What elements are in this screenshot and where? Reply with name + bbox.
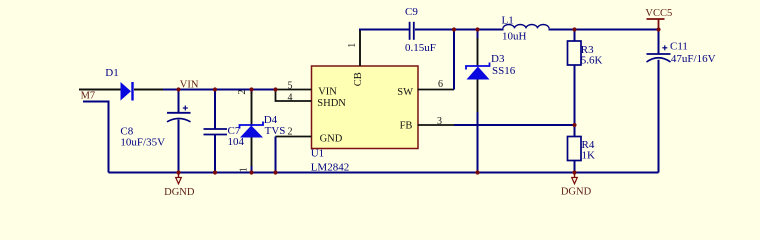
node junction at C7	[213, 87, 217, 91]
wire L1 to VCC5 node	[549, 29, 659, 31]
svg-text:GND: GND	[320, 133, 343, 144]
wire D1 cathode to VIN node / pin5	[134, 89, 163, 91]
svg-text:6: 6	[438, 79, 443, 90]
wire SW up to rail	[453, 29, 455, 90]
ground DGND right	[561, 173, 592, 198]
wire FB to divider node	[454, 124, 575, 126]
svg-text:FB: FB	[400, 120, 413, 131]
node junction VCC5	[656, 27, 660, 31]
node junction at pin5/4	[273, 87, 277, 91]
svg-text:2: 2	[288, 126, 293, 137]
svg-text:DGND: DGND	[164, 187, 195, 198]
svg-text:VCC5: VCC5	[645, 8, 672, 19]
pin 3 FB	[418, 124, 455, 126]
node junction D3 rail	[475, 27, 479, 31]
ground rail junctions	[176, 170, 180, 174]
wire C9 to SW node	[415, 29, 504, 31]
capacitor C7	[204, 90, 245, 173]
svg-text:5: 5	[288, 81, 293, 92]
svg-text:1K: 1K	[582, 150, 596, 162]
pin 1 CB	[359, 31, 361, 67]
wire D3 cathode to rail	[477, 30, 479, 41]
inductor L1	[502, 14, 550, 42]
schottky diode D3	[466, 53, 516, 80]
svg-text:47uF/16V: 47uF/16V	[671, 53, 716, 65]
svg-text:SHDN: SHDN	[317, 98, 346, 109]
ground rail wire	[109, 172, 659, 174]
svg-text:1: 1	[239, 167, 250, 172]
capacitor C11	[647, 30, 716, 173]
svg-text:SW: SW	[397, 87, 413, 98]
svg-text:10uH: 10uH	[502, 30, 527, 42]
svg-text:VIN: VIN	[180, 80, 199, 91]
wire CB up to bootstrap rail	[359, 29, 409, 31]
TVS diode D4	[237, 90, 285, 173]
diode D1	[105, 67, 132, 101]
power VCC5	[645, 8, 672, 30]
svg-text:SS16: SS16	[492, 65, 516, 77]
svg-text:1: 1	[347, 43, 358, 48]
svg-text:C9: C9	[405, 6, 418, 18]
svg-text:U1: U1	[311, 148, 324, 160]
ground DGND left	[164, 173, 195, 199]
wire D3 anode to ground rail	[477, 80, 479, 113]
svg-text:3: 3	[437, 116, 442, 127]
op IC U1 LM2842 body	[311, 66, 418, 174]
node VIN junction at C8	[176, 87, 180, 91]
svg-text:LM2842: LM2842	[311, 162, 350, 174]
svg-text:104: 104	[228, 136, 245, 148]
svg-text:0.15uF: 0.15uF	[405, 42, 436, 54]
svg-text:C11: C11	[670, 41, 688, 53]
pin 6 SW	[418, 89, 455, 91]
svg-text:10uF/35V: 10uF/35V	[120, 136, 165, 148]
svg-text:DGND: DGND	[561, 187, 592, 198]
node junction R3 top	[572, 27, 576, 31]
resistor R4	[568, 125, 596, 173]
wire M7 pin2 down to ground rail	[83, 102, 109, 173]
capacitor C9	[405, 6, 436, 54]
node junction SW rail	[452, 27, 456, 31]
pin 5 VIN	[276, 89, 312, 91]
node junction at D4	[249, 87, 253, 91]
svg-text:D3: D3	[491, 53, 505, 65]
svg-text:CB: CB	[353, 72, 364, 86]
svg-text:TVS: TVS	[265, 125, 286, 137]
svg-text:5.6K: 5.6K	[581, 55, 603, 67]
wire M7 pin1 to D1 anode	[79, 89, 121, 91]
svg-text:M7: M7	[81, 91, 96, 102]
svg-text:VIN: VIN	[318, 87, 337, 98]
resistor R3	[568, 30, 603, 126]
node junction FB divider	[572, 123, 576, 127]
svg-text:2: 2	[237, 90, 248, 95]
svg-text:4: 4	[288, 92, 293, 103]
pin 4 SHDN	[276, 90, 312, 102]
capacitor C8	[120, 90, 190, 173]
svg-text:L1: L1	[502, 14, 514, 26]
pin 2 GND	[276, 136, 312, 138]
wire pin2 to ground rail	[275, 137, 277, 173]
svg-text:D1: D1	[105, 67, 118, 79]
